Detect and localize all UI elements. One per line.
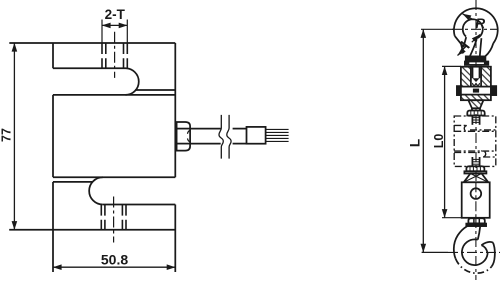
upper threaded hole 2-T dashed lines: [102, 43, 127, 68]
cable segment 2: [233, 128, 247, 130]
lower narrow slot bottom line: [53, 181, 93, 183]
bolt center mark: [473, 89, 479, 93]
svg-text:R: R: [475, 16, 485, 31]
lower eye block: [462, 182, 490, 218]
bottom hex nut: [466, 166, 484, 171]
stud into cell with thread ticks: [471, 115, 473, 124]
shank washer: [465, 62, 488, 65]
top hook tip inner edge: [464, 37, 467, 47]
lower hole centerline: [113, 197, 115, 243]
top hook outer arc: [454, 8, 498, 43]
bottom hook outer right (solid): [492, 243, 495, 267]
stud cone tip: [473, 78, 480, 82]
dimension L line with arrows: [422, 29, 424, 252]
upper narrow slot top line: [135, 89, 175, 91]
bottom hook outer sweep upper-left (solid): [454, 226, 467, 259]
body right edge lower segment + 50.8 extension: [174, 205, 176, 273]
top hook horizontal centerline: [452, 28, 498, 30]
bottom hook beak underside and inner eye: [462, 239, 488, 265]
body bottom edge with 77 extension: [9, 229, 175, 231]
top hook middle tail: [480, 38, 482, 56]
body left edge middle segment: [52, 95, 54, 177]
upper cut bottom line (full width): [53, 94, 175, 96]
dimension 77 line with arrows: [13, 43, 15, 230]
bottom stud from cell: [471, 157, 473, 166]
hex corner arcs: [188, 130, 191, 142]
stem below funnel: [471, 108, 473, 110]
dome nut below block: [468, 218, 484, 223]
cable break mark left: [219, 115, 223, 159]
lower funnel transition: [464, 174, 489, 183]
bottom hook outer bottom rim (dash-dot): [456, 259, 492, 273]
cable end block: [247, 127, 266, 144]
svg-text:77: 77: [0, 128, 13, 142]
upper block (hatched, cross-section): [461, 67, 491, 101]
cable gland hex nut: [177, 122, 191, 151]
bottom hook shank right line: [478, 226, 480, 239]
dimension L0 extension top: [442, 65, 461, 67]
jam nut: [467, 111, 484, 116]
body left edge lower segment + 50.8 extension: [52, 182, 54, 272]
shank thread ticks: [469, 60, 482, 61]
svg-text:L: L: [408, 139, 423, 147]
flange bar below nut: [466, 224, 486, 227]
bottom hook beak top: [481, 242, 493, 245]
top hook outer tail: [485, 43, 493, 56]
dimension 2-T extension lines: [102, 20, 127, 44]
phantom lower slot: [483, 156, 496, 158]
svg-text:L0: L0: [432, 134, 446, 149]
top hook shank nut (dark): [466, 56, 486, 60]
cable segment 1: [190, 128, 221, 130]
svg-text:50.8: 50.8: [101, 252, 128, 268]
lower cut bottom line: [103, 204, 176, 206]
bottom hook vertical centerline: [475, 218, 477, 280]
svg-text:2-T: 2-T: [105, 7, 126, 22]
lower block centerline: [475, 182, 477, 218]
lower cut rounded end cap: [89, 177, 103, 204]
dimension L extension top: [421, 28, 454, 30]
dimension L0 line with arrows: [444, 66, 446, 217]
body top edge with 77 extension: [9, 42, 175, 44]
dimension 50.8 line with arrows: [53, 266, 175, 268]
dimension 2-T line with arrows: [102, 24, 127, 26]
upper cut rounded end cap: [126, 68, 139, 95]
top hook inner tail: [470, 40, 477, 57]
lower cut top line (full width): [53, 176, 175, 178]
top hook tip face: [455, 36, 464, 47]
cable gland hex facet lines: [177, 128, 191, 130]
bottom hook horizontal centerline: [448, 251, 500, 253]
stud inside channel: [472, 67, 474, 79]
cable break mark right: [227, 115, 231, 159]
label R leader arrow: [463, 14, 474, 20]
lower funnel cross diagonals: [470, 174, 488, 183]
thread relief arcs: [473, 83, 480, 85]
top hook inner eye arc: [463, 19, 483, 38]
dimension A line with arrows: [458, 51, 463, 56]
dimension L0 extension bottom: [442, 217, 462, 219]
phantom load cell outline (dash-dot): [454, 116, 496, 166]
dimension L extension bottom: [422, 251, 448, 253]
body left edge upper segment: [52, 43, 54, 68]
upper block stud channel (white): [471, 67, 481, 87]
bolt left cap (dark): [457, 86, 461, 95]
cable wires: [266, 129, 289, 141]
assembly vertical centerline: [475, 0, 477, 218]
eye block hole circle: [471, 188, 482, 199]
upper hole centerline: [114, 32, 116, 78]
lower threaded hole dashed lines: [101, 205, 126, 230]
body right edge upper segment: [174, 43, 176, 177]
bottom washer: [464, 171, 486, 173]
phantom upper slot: [454, 124, 467, 126]
bolt right cap (dark): [491, 86, 496, 95]
horizontal through bolt band: [458, 87, 495, 95]
upper funnel transition (hatched): [468, 100, 483, 108]
upper cut top line: [53, 67, 126, 69]
